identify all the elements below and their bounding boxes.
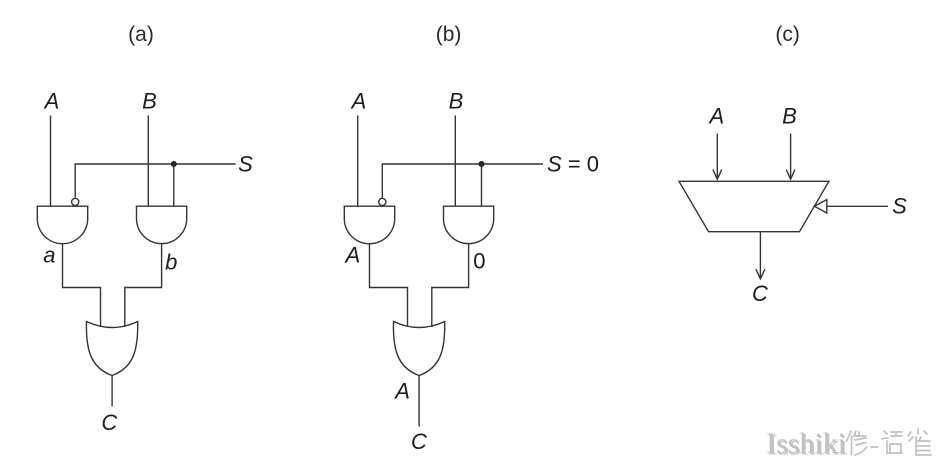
wire left AND output to OR input (a) (63, 244, 101, 327)
wire S horizontal with corner down to bubble (b) (382, 164, 543, 198)
wire S branch to right gate (a) (173, 164, 175, 206)
svg-text:(b): (b) (436, 23, 462, 46)
wire A input arrow (c) (716, 134, 718, 180)
svg-text:A: A (708, 103, 725, 128)
svg-text:0: 0 (473, 249, 485, 274)
svg-text:B: B (449, 89, 464, 114)
svg-text:C: C (101, 410, 117, 435)
svg-text:A: A (350, 89, 367, 114)
wire S select (c) (827, 205, 888, 207)
and-gate right (b) (444, 206, 494, 243)
arrowhead B (c) (786, 170, 795, 180)
svg-text:S = 0: S = 0 (547, 151, 599, 176)
svg-text:A: A (43, 89, 60, 114)
svg-text:C: C (411, 429, 427, 454)
wire right AND output to OR input (a) (125, 244, 162, 327)
svg-text:B: B (782, 103, 797, 128)
svg-text:C: C (752, 281, 768, 306)
svg-text:A: A (344, 242, 361, 267)
svg-text:(a): (a) (128, 23, 154, 46)
wire OR output (a) (111, 376, 113, 407)
arrowhead A (c) (713, 170, 722, 180)
inverter bubble on left AND gate (a) (72, 198, 79, 205)
wire B input arrow (c) (790, 134, 792, 180)
svg-text:S: S (238, 151, 253, 176)
wire B input (a) (147, 116, 149, 207)
svg-text:S: S (892, 194, 907, 219)
and-gate left (a) (37, 206, 87, 243)
wire S branch to right gate (b) (481, 164, 483, 206)
wire B input (b) (454, 116, 456, 207)
wire S horizontal with corner down to bubble (a) (75, 164, 236, 198)
multiplexer U1 trapezoid body (c) (679, 181, 829, 231)
watermark CJK glyphs (847, 429, 932, 455)
wire A input (a) (50, 116, 52, 207)
or-gate (b) (393, 322, 444, 376)
svg-text:a: a (43, 243, 55, 268)
svg-text:Isshiki: Isshiki (768, 429, 848, 462)
arrowhead C (c) (756, 269, 765, 279)
svg-text:A: A (393, 379, 410, 404)
junction dot on S line (b) (479, 161, 485, 167)
inverter bubble on left AND gate (b) (379, 198, 386, 205)
wire right AND output to OR input (b) (432, 244, 469, 327)
or-gate (a) (86, 322, 137, 376)
svg-text:(c): (c) (775, 23, 800, 46)
junction dot on S line (a) (171, 161, 177, 167)
and-gate right (a) (137, 206, 187, 243)
watermark Isshiki (766, 427, 848, 462)
svg-text:b: b (165, 249, 177, 274)
wire A input (b) (357, 116, 359, 207)
select input triangle (c) (814, 200, 826, 213)
svg-text:B: B (142, 89, 157, 114)
wire OR output (b) (418, 376, 420, 427)
wire left AND output to OR input (b) (370, 244, 408, 327)
and-gate left (b) (344, 206, 394, 244)
wire C output arrow (c) (759, 232, 761, 279)
